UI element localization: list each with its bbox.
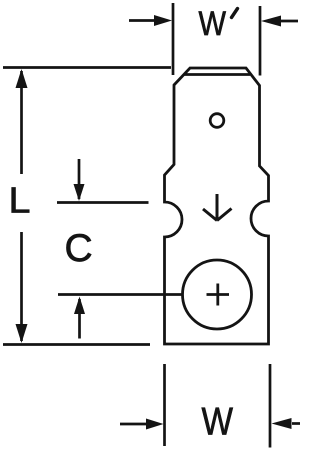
W' left arrowhead [154,15,172,26]
W' right extension line [259,6,262,76]
L bottom arrowhead [16,324,28,343]
L dimension line upper [20,71,23,174]
W left extension line [163,364,166,446]
svg-text:W: W [202,401,234,444]
terminal body outline [165,68,269,344]
C lower arrow line [78,299,81,339]
W right arrowhead [272,418,292,429]
stud hole center cross [207,284,230,306]
W right extension line [269,364,272,448]
W right arrow line [292,422,300,425]
svg-text:C: C [65,227,93,270]
L top arrowhead [16,69,28,88]
W' right arrowhead [261,16,281,27]
tab tip fold line [185,73,251,76]
svg-text:L: L [9,180,31,221]
C bottom arrowhead [74,297,85,315]
W left arrowhead [146,419,164,430]
svg-text:W: W [199,5,227,43]
W' right arrow line [281,20,298,23]
L top extension line [3,66,171,69]
stud hole circle [183,260,252,329]
C top extension line [57,201,149,204]
W' left arrow line [129,19,157,22]
C leader line to hole center [58,293,183,296]
dimple hole [210,114,224,128]
label W' prime mark [232,9,238,18]
W' left extension line [172,3,175,75]
insertion direction arrow [203,194,232,221]
W left arrow line [120,423,148,426]
L dimension line lower [20,232,23,341]
L bottom extension line [3,343,150,346]
C top arrowhead [74,184,85,201]
C upper arrow line [78,159,81,199]
